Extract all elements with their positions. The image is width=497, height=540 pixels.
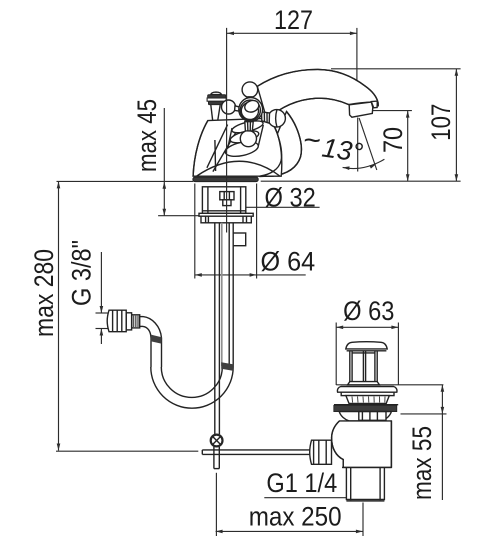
hose left section [150, 338, 152, 367]
hose shading bands [151, 335, 162, 344]
bell body [193, 118, 282, 176]
dim 107 top extension line [331, 68, 461, 70]
hose collar [126, 313, 131, 330]
dim 127 dimension line [227, 5, 357, 35]
svg-text:max 250: max 250 [249, 502, 342, 532]
dim O64 extension lines [194, 184, 196, 279]
dim max280 dimension line [29, 181, 61, 450]
rod visible through bell [214, 140, 217, 171]
svg-text:127: 127 [274, 5, 313, 35]
mounting flange [199, 213, 253, 216]
handle hub rings [239, 98, 263, 122]
svg-text:G1 1/4: G1 1/4 [266, 468, 337, 498]
pop-up lift rod stem [211, 105, 214, 127]
locknut taper with hex [339, 412, 391, 421]
dim max45 dimension line [132, 99, 166, 216]
pop-up plug dome [346, 342, 387, 349]
linkage nut [310, 440, 332, 464]
handle left ball [222, 100, 236, 114]
handle left spoke [235, 106, 240, 111]
pop-up rod under counter [214, 223, 216, 434]
svg-text:Ø 32: Ø 32 [265, 182, 316, 212]
svg-text:max 55: max 55 [407, 426, 437, 500]
spout support outer curve [260, 112, 301, 177]
spout upper outline [257, 69, 378, 119]
bell inner diagonal lines [207, 125, 228, 168]
spout head bottom edge [349, 102, 378, 104]
locknut dark band [334, 405, 397, 411]
dim max250 extension lines [215, 473, 217, 536]
handle bottom ball [240, 131, 256, 147]
dim O63 extension lines [335, 323, 337, 386]
dim O63 [336, 296, 398, 329]
handle right spoke [262, 112, 270, 123]
pop-up lift rod [214, 127, 215, 173]
spout lower outline [267, 98, 349, 119]
plug stem [349, 351, 351, 382]
sink surface line [336, 384, 443, 386]
dim 127 right extension line [356, 28, 358, 82]
dim 107 dimension line [426, 69, 458, 181]
clevis screw X joint [211, 435, 223, 447]
svg-text:max 45: max 45 [132, 99, 162, 172]
shank outer box [202, 187, 245, 214]
hose U-bend [151, 367, 233, 408]
svg-text:70: 70 [378, 127, 408, 153]
hose nut [107, 310, 126, 332]
valve block [233, 233, 246, 246]
right countertop reference line [261, 180, 461, 182]
hose ferrule [132, 315, 140, 328]
dim O32 leader [208, 182, 320, 212]
base plinth [193, 177, 258, 182]
drain body [332, 421, 392, 468]
supply tube [232, 223, 234, 367]
svg-text:13°: 13° [320, 133, 365, 168]
handle escutcheon stack [231, 118, 264, 135]
handle top ball [242, 82, 258, 98]
svg-text:Ø 63: Ø 63 [343, 296, 394, 326]
shank cartridge [220, 192, 234, 200]
svg-text:~: ~ [303, 124, 321, 157]
left countertop reference line [57, 180, 194, 182]
aerator [349, 102, 373, 117]
pop-up lift knob crown [211, 92, 222, 95]
~13 degree annotation [303, 118, 384, 172]
handle top spoke [247, 97, 254, 100]
tailpipe [345, 467, 347, 500]
drain flange top disc [337, 387, 397, 393]
drain flange knurled taper [346, 396, 389, 404]
dim max45 bottom reference line [158, 215, 249, 217]
locknut top line [334, 404, 398, 406]
svg-text:107: 107 [426, 104, 456, 141]
svg-text:G 3/8": G 3/8" [67, 240, 97, 306]
horizontal linkage rod [202, 449, 309, 451]
dim O64 [195, 246, 315, 276]
dim max55 [401, 385, 447, 500]
dim 70 dimension line [378, 111, 410, 182]
handle bottom spoke [245, 122, 253, 132]
bell mouth arc [197, 161, 280, 176]
aerator right tab [371, 101, 377, 108]
dim G1 1/4 leader [264, 468, 346, 498]
hose elbow [143, 317, 162, 338]
handle right ball [268, 110, 285, 127]
pop-up lift knob brim [208, 95, 226, 98]
hose horizontal walls [140, 316, 143, 318]
dim max250 [216, 502, 363, 534]
dim 70 top extension line [373, 110, 412, 112]
dim G3/8 ticks and line [67, 240, 108, 344]
rod below joint [213, 447, 215, 469]
bottom-left reference line to pop-up rod [56, 450, 198, 452]
svg-text:max 280: max 280 [29, 249, 59, 337]
centerline over faucet [226, 28, 228, 233]
svg-text:Ø 64: Ø 64 [261, 246, 316, 276]
plug foot flare [348, 382, 380, 385]
drain flange ring2 [341, 392, 394, 395]
